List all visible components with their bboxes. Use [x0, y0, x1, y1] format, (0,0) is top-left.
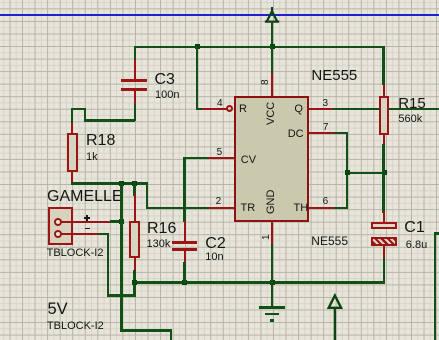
wire: left net corner down to TR wire — [146, 182, 148, 209]
pin name R — [239, 104, 247, 115]
IC pin 4 inversion bubble — [226, 105, 233, 112]
pin number 2 — [216, 197, 222, 207]
connector + pin line — [61, 221, 112, 223]
junction rail/C2 — [182, 280, 187, 285]
capacitor C1 top pin — [383, 211, 385, 222]
IC pin 6 TH stub — [309, 207, 335, 209]
junction rail/R16 — [132, 280, 137, 285]
power flag (top VCC arrow) — [262, 4, 284, 24]
wire: ground rail — [133, 281, 385, 283]
resistor R16 body — [129, 221, 140, 258]
wire: VCC top rail — [134, 46, 385, 48]
wire: - net up to ground rail — [133, 283, 135, 297]
pin number 4 — [217, 99, 223, 109]
label C3 — [155, 72, 175, 88]
label TBLOCK-I2 (GAMELLE) — [47, 248, 104, 259]
IC pin 2 TR stub — [209, 207, 235, 209]
pin name GND (rotated) — [266, 190, 277, 214]
wire: GND pin to rail and ground symbol — [271, 244, 273, 307]
wire: - pin right then down — [98, 233, 109, 235]
label NE555 (top right) — [311, 68, 357, 83]
label 1k — [86, 152, 98, 163]
resistor R15 bottom pin — [383, 135, 385, 146]
capacitor C2 plates — [172, 241, 198, 243]
resistor R16 top wire from junction — [133, 182, 135, 196]
label NE555 (below IC) — [311, 235, 348, 247]
junction left net to R16 — [132, 181, 137, 186]
label GAMELLE — [47, 189, 123, 205]
wire: rail down to IC pin4 corner — [196, 46, 198, 110]
capacitor C3 top pin — [134, 60, 136, 80]
pin number 7 — [323, 123, 329, 133]
label R15 — [398, 96, 426, 111]
pin name DC — [288, 129, 304, 140]
capacitor C2 bottom pin — [184, 251, 186, 265]
label C1 — [404, 220, 424, 236]
connector pin circle + — [54, 218, 62, 226]
connector pin circle - — [54, 230, 62, 238]
wire: C3 bottom staircase to R18 — [134, 104, 136, 122]
wire: R16 to ground rail — [133, 270, 135, 284]
pin number 6 — [323, 197, 329, 207]
capacitor C1 bottom plate (hatched) — [371, 237, 398, 246]
label 5V — [48, 301, 68, 318]
capacitor C3 bottom pin — [134, 91, 136, 105]
wire: rail to pin 8 — [271, 46, 273, 73]
label C2 — [205, 236, 225, 252]
wire: + net vertical down — [120, 182, 122, 331]
label 100n — [155, 90, 179, 101]
wire: DC/TH node horizontal — [346, 172, 386, 174]
IC pin 4 R stub — [202, 108, 227, 110]
wire: CV net vertical down to C2 (crosses TR wire) — [183, 157, 185, 222]
wire: rail down to C3 top — [134, 46, 136, 62]
capacitor C1 bottom pin — [383, 246, 385, 260]
junction DC/TH right — [382, 170, 387, 175]
capacitor C1 top plate — [371, 222, 398, 230]
resistor R16 top pin — [134, 194, 136, 221]
wire: DC right then down — [334, 132, 349, 134]
label - — [85, 228, 90, 230]
wire: corner to R pin — [196, 108, 204, 110]
junction rail/GND — [270, 280, 275, 285]
label + — [84, 217, 91, 219]
wire: - net bottom jog right — [107, 294, 136, 296]
label TBLOCK-I2 (5V) — [47, 321, 104, 332]
label 130k — [147, 239, 171, 250]
label 560k — [398, 114, 422, 125]
resistor R18 bottom pin — [71, 172, 73, 184]
resistor R18 top pin — [71, 123, 73, 134]
label R18 — [86, 133, 115, 149]
IC pin 7 DC stub — [309, 132, 335, 134]
wire: + net drop off bottom edge — [170, 329, 172, 340]
pin number 8 (rotated) — [261, 79, 271, 85]
junction on rail above VCC pin — [270, 44, 275, 49]
pin number 1 (rotated) — [262, 234, 272, 240]
resistor R16 bottom pin — [134, 258, 136, 271]
pin number 5 — [217, 148, 223, 158]
power flag (bottom arrow) — [325, 291, 347, 340]
label 6.8u — [406, 240, 427, 251]
wire: CV net from pin 5 — [183, 157, 209, 159]
connector - pin line — [61, 233, 100, 235]
resistor R15 body — [379, 96, 390, 135]
wire: + net bottom horizontal — [120, 329, 172, 331]
pin number 3 — [323, 99, 329, 109]
junction left net to GAMELLE + — [119, 181, 124, 186]
junction DC/TH left — [345, 170, 350, 175]
IC pin 8 VCC stub — [271, 72, 273, 97]
wire: C1 to ground rail — [383, 258, 385, 284]
capacitor C2 top pin — [184, 221, 186, 242]
connector J GAMELLE body (TBLOCK-I2) — [48, 207, 73, 245]
pin name TH — [294, 203, 309, 214]
wire: R15 down to DC/TH node and C1 — [382, 144, 384, 213]
ground symbol — [259, 306, 286, 309]
op-amp/timer U1 NE555 body — [234, 96, 309, 222]
pin name VCC (rotated) — [266, 102, 277, 125]
wire: Q output to right edge — [333, 108, 439, 110]
junction + pin — [119, 219, 124, 224]
wire: left net horizontal (R18 / + / R16 / TR) — [71, 182, 149, 184]
IC pin 5 CV stub — [208, 157, 234, 159]
wire: arrow stem to VCC rail — [271, 21, 273, 47]
wire: + pin to junction — [110, 220, 123, 222]
wire: TR horizontal — [146, 207, 209, 209]
wire: bottom right corner net — [434, 232, 439, 234]
wire: TH to DC vertical — [334, 207, 349, 209]
IC pin 3 Q stub — [309, 108, 334, 110]
IC pin 1 GND stub — [271, 222, 273, 246]
label R16 — [147, 221, 176, 237]
pin name TR — [241, 203, 256, 214]
capacitor C3 plates — [121, 79, 147, 82]
wire: C2 to ground rail — [183, 262, 185, 283]
pin name CV — [241, 155, 256, 166]
resistor R15 top pin — [383, 84, 385, 97]
label 10n — [205, 252, 223, 263]
pin name Q — [294, 104, 303, 115]
junction on rail above IC pin4 net — [195, 44, 200, 49]
sheet border (blue line) — [0, 14, 439, 16]
resistor R18 body — [67, 133, 78, 172]
wire: rail right end down to R15 — [382, 46, 384, 85]
